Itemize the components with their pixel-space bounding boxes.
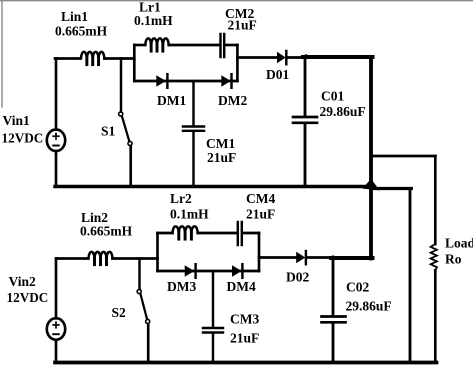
svg-text:DM3: DM3 [167, 279, 196, 294]
svg-text:0.665mH: 0.665mH [55, 24, 108, 39]
svg-text:29.86uF: 29.86uF [346, 299, 392, 314]
svg-text:D01: D01 [266, 67, 289, 82]
svg-text:12VDC: 12VDC [7, 290, 49, 305]
svg-text:Vin2: Vin2 [9, 274, 37, 289]
svg-text:CM3: CM3 [230, 312, 259, 327]
svg-text:21uF: 21uF [246, 207, 275, 222]
svg-text:C01: C01 [321, 89, 344, 104]
svg-text:C02: C02 [346, 280, 369, 295]
svg-text:12VDC: 12VDC [2, 131, 44, 146]
svg-text:S2: S2 [112, 305, 127, 320]
svg-text:29.86uF: 29.86uF [320, 104, 366, 119]
svg-text:Lin1: Lin1 [61, 9, 88, 24]
svg-text:0.665mH: 0.665mH [80, 224, 133, 239]
svg-text:D02: D02 [286, 270, 309, 285]
svg-text:Ro: Ro [445, 252, 462, 267]
svg-text:CM4: CM4 [246, 191, 275, 206]
svg-text:Lr2: Lr2 [170, 191, 192, 206]
svg-text:DM4: DM4 [227, 279, 256, 294]
svg-text:Load: Load [445, 236, 473, 251]
svg-text:DM1: DM1 [157, 93, 186, 108]
svg-text:0.1mH: 0.1mH [170, 207, 209, 222]
svg-text:CM1: CM1 [206, 136, 235, 151]
svg-text:21uF: 21uF [207, 150, 236, 165]
svg-text:DM2: DM2 [218, 93, 247, 108]
svg-text:S1: S1 [101, 124, 116, 139]
svg-text:21uF: 21uF [228, 18, 257, 33]
svg-text:Vin1: Vin1 [3, 113, 31, 128]
svg-text:21uF: 21uF [230, 331, 259, 346]
svg-text:0.1mH: 0.1mH [134, 13, 173, 28]
